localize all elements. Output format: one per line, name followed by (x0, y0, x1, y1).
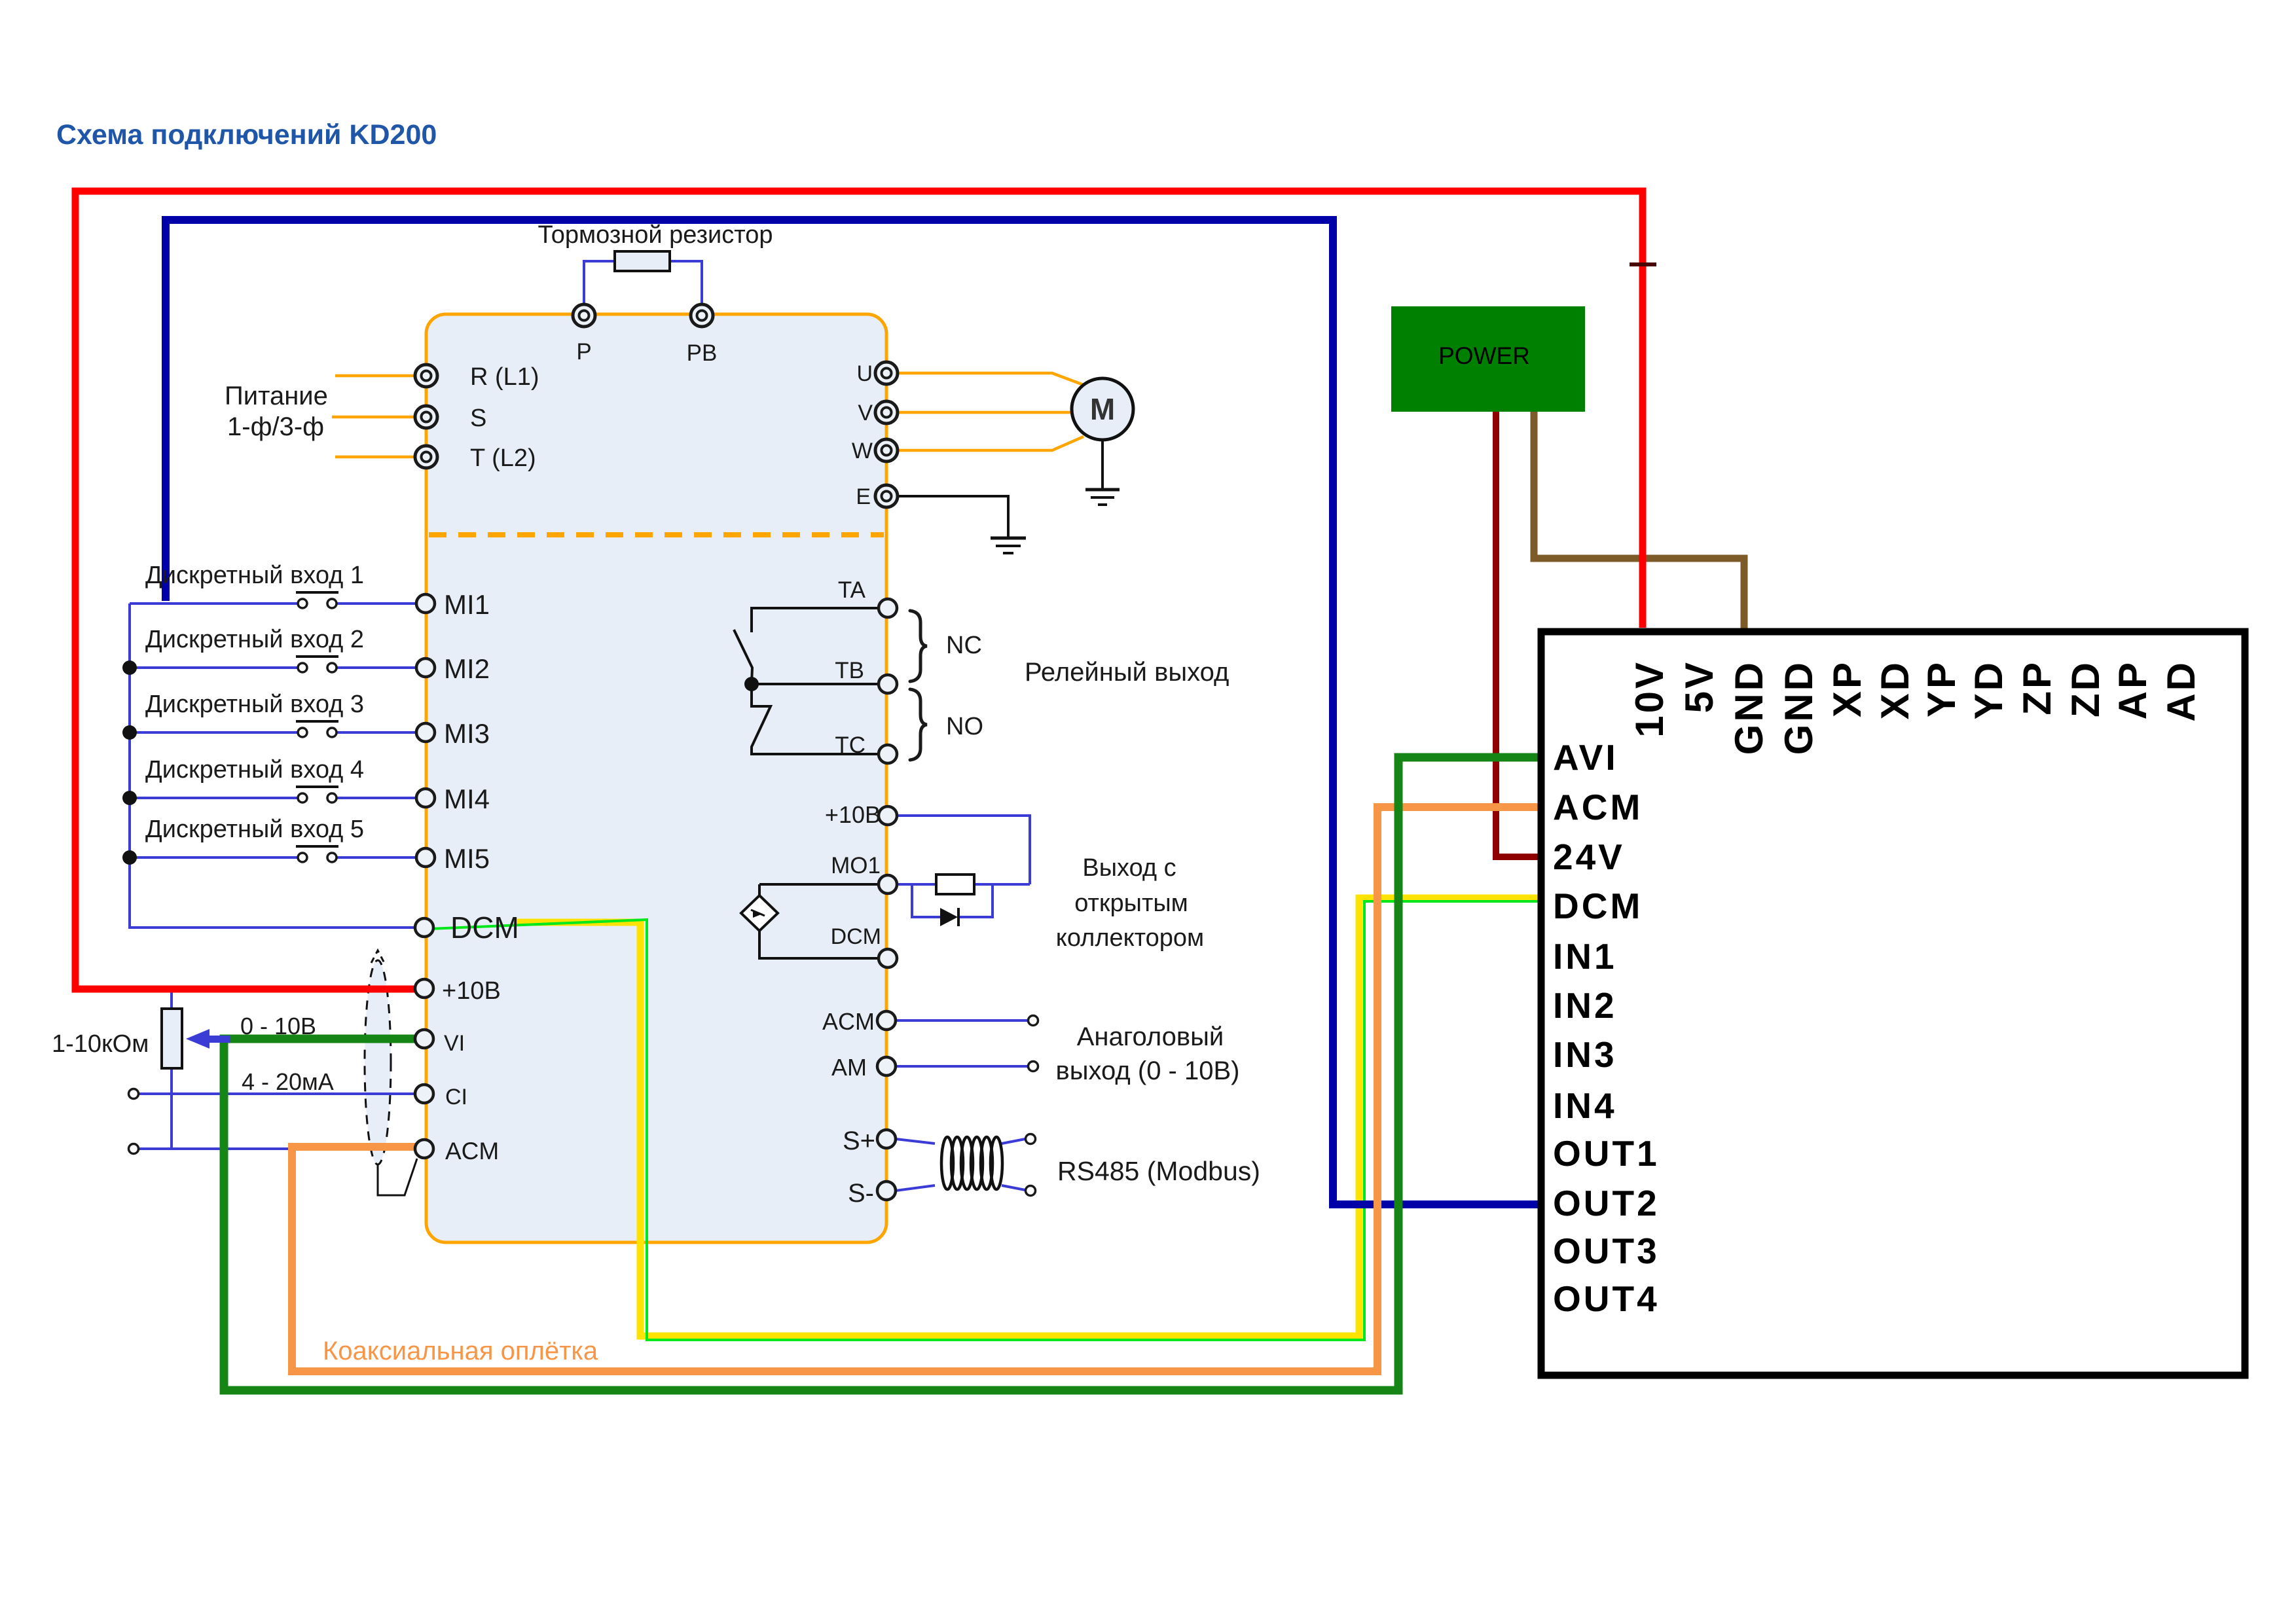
svg-text:AP: AP (2111, 660, 2155, 719)
svg-text:OUT4: OUT4 (1553, 1278, 1660, 1319)
svg-text:Дискретный вход 4: Дискретный вход 4 (145, 756, 364, 784)
svg-text:MI2: MI2 (444, 653, 490, 684)
svg-text:IN4: IN4 (1553, 1085, 1617, 1126)
svg-text:YP: YP (1920, 660, 1963, 717)
svg-text:MO1: MO1 (831, 853, 881, 878)
svg-text:ZP: ZP (2015, 660, 2059, 715)
svg-text:Дискретный вход 3: Дискретный вход 3 (145, 691, 364, 718)
svg-text:IN1: IN1 (1553, 936, 1617, 977)
svg-text:ACM: ACM (1553, 787, 1643, 827)
svg-text:POWER: POWER (1438, 342, 1530, 369)
svg-text:AM: AM (831, 1054, 867, 1081)
svg-text:Тормозной резистор: Тормозной резистор (538, 221, 773, 249)
svg-text:E: E (856, 484, 871, 509)
svg-text:открытым: открытым (1074, 890, 1188, 917)
svg-text:T (L2): T (L2) (470, 444, 536, 472)
svg-text:Питание: Питание (225, 382, 328, 410)
svg-text:DCM: DCM (450, 911, 519, 945)
svg-text:+10В: +10В (442, 977, 501, 1005)
svg-text:AVI: AVI (1553, 737, 1618, 778)
svg-text:IN3: IN3 (1553, 1034, 1617, 1075)
svg-text:R (L1): R (L1) (470, 363, 539, 391)
svg-text:NC: NC (946, 632, 982, 659)
svg-text:5V: 5V (1677, 660, 1721, 713)
svg-text:OUT2: OUT2 (1553, 1183, 1660, 1223)
svg-text:P: P (576, 339, 591, 365)
svg-text:M: M (1090, 392, 1115, 426)
svg-text:24V: 24V (1553, 837, 1625, 877)
svg-text:GND: GND (1727, 660, 1771, 755)
svg-text:4 - 20мА: 4 - 20мА (242, 1068, 334, 1095)
svg-text:MI5: MI5 (444, 843, 490, 874)
svg-text:выход (0 - 10В): выход (0 - 10В) (1056, 1056, 1240, 1085)
svg-text:DCM: DCM (1553, 886, 1643, 926)
svg-text:ACM: ACM (822, 1008, 875, 1035)
svg-text:W: W (852, 439, 873, 463)
svg-text:PB: PB (687, 340, 718, 366)
svg-text:0 - 10В: 0 - 10В (240, 1013, 316, 1039)
svg-text:IN2: IN2 (1553, 985, 1617, 1026)
svg-text:MI4: MI4 (444, 784, 490, 814)
svg-text:U: U (856, 361, 873, 386)
svg-text:S+: S+ (843, 1127, 875, 1155)
svg-text:10V: 10V (1628, 660, 1671, 738)
svg-text:1-10кОм: 1-10кОм (52, 1030, 149, 1058)
svg-text:Выход с: Выход с (1082, 854, 1176, 882)
svg-text:MI3: MI3 (444, 718, 490, 749)
svg-text:коллектором: коллектором (1056, 924, 1204, 952)
svg-text:VI: VI (444, 1031, 465, 1056)
svg-text:AD: AD (2159, 660, 2203, 722)
svg-text:TB: TB (835, 658, 864, 683)
svg-text:Релейный выход: Релейный выход (1025, 658, 1229, 687)
svg-text:GND: GND (1777, 660, 1821, 755)
svg-text:Дискретный вход 5: Дискретный вход 5 (145, 816, 364, 843)
svg-text:DCM: DCM (831, 924, 881, 949)
svg-text:+10В: +10В (825, 801, 881, 828)
svg-text:MI1: MI1 (444, 589, 490, 620)
svg-text:TA: TA (838, 577, 866, 603)
svg-text:ZD: ZD (2064, 660, 2107, 717)
svg-text:XD: XD (1873, 660, 1917, 719)
svg-text:CI: CI (445, 1085, 467, 1110)
svg-text:XP: XP (1825, 660, 1869, 717)
svg-text:S-: S- (848, 1179, 874, 1208)
svg-text:TC: TC (835, 732, 866, 758)
svg-text:ACM: ACM (445, 1138, 499, 1164)
svg-text:NO: NO (946, 713, 983, 740)
svg-text:YD: YD (1967, 660, 2011, 719)
svg-text:Дискретный вход 2: Дискретный вход 2 (145, 626, 364, 653)
svg-text:RS485 (Modbus): RS485 (Modbus) (1057, 1156, 1260, 1186)
svg-text:Схема подключений KD200: Схема подключений KD200 (56, 119, 437, 151)
svg-text:1-ф/3-ф: 1-ф/3-ф (227, 412, 324, 441)
svg-text:V: V (858, 401, 873, 425)
svg-text:Анаголовый: Анаголовый (1077, 1022, 1224, 1051)
svg-text:OUT1: OUT1 (1553, 1133, 1660, 1174)
svg-text:Коаксиальная оплётка: Коаксиальная оплётка (323, 1337, 598, 1365)
svg-text:Дискретный вход 1: Дискретный вход 1 (145, 562, 364, 589)
svg-text:OUT3: OUT3 (1553, 1231, 1660, 1271)
svg-text:S: S (470, 405, 486, 432)
